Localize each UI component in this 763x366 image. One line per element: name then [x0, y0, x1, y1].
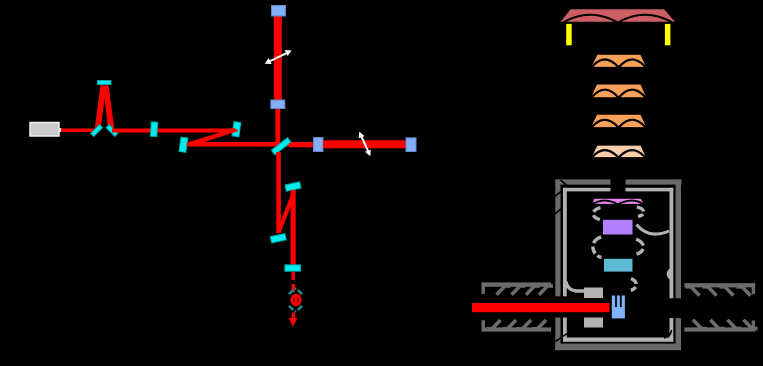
output arrowhead: [289, 318, 298, 327]
diagonal beam of Z-fold: [188, 128, 239, 147]
wire beam to waveplate: [112, 129, 237, 133]
white double arrow on vertical beam: [266, 51, 291, 64]
wire beam right of beamsplitter: [289, 143, 315, 148]
wire left wall to block: [566, 282, 585, 292]
blue element mid vertical arm: [271, 100, 285, 109]
blue detector right end: [406, 138, 416, 152]
oven plate 3: [590, 114, 648, 128]
yellow leg right: [664, 23, 671, 45]
red ring focus: [292, 295, 300, 304]
retro mirror above triangle: [98, 81, 112, 85]
beamsplitter at crossing: [271, 138, 291, 155]
thick vertical beam top: [274, 15, 282, 101]
blue detector top: [272, 6, 286, 17]
collimator block lower: [584, 318, 603, 328]
fold mirror upper right: [232, 122, 241, 137]
yellow leg left: [566, 23, 573, 45]
collimator block upper: [584, 288, 603, 299]
ion beam in chamber: [472, 303, 610, 312]
cyan electrode: [604, 259, 633, 272]
feedthrough bump right wall: [668, 270, 671, 279]
dashed coil arcs: [593, 207, 644, 290]
lower Z diagonal beam: [277, 193, 296, 233]
right flange tube: [684, 283, 755, 331]
mirror pair left (V): [91, 125, 118, 137]
oven plate 1: [590, 54, 647, 68]
chamber outer wall: [555, 179, 681, 350]
chamber inner wall: [563, 188, 673, 342]
roof table top: [559, 9, 676, 23]
oven plate 4: [590, 145, 647, 158]
left flange hatching: [487, 286, 554, 329]
wall seams: [555, 180, 672, 342]
laser source box: [30, 123, 62, 137]
dashed chevron bottom (lens): [289, 306, 302, 312]
dashed chevron top (lens): [289, 289, 302, 295]
fold mirror lower left: [179, 137, 188, 152]
filter bar: [285, 265, 301, 272]
wire from electrode to right wall: [637, 225, 670, 235]
left flange tube: [482, 282, 552, 331]
vertical beam down to filter: [291, 190, 296, 265]
wire beam from laser: [61, 129, 94, 133]
waveplate vertical element: [150, 122, 157, 137]
roof arcs: [563, 15, 618, 23]
detector comb: [612, 296, 625, 319]
oven plate 2: [590, 84, 648, 98]
right flange hatching: [686, 287, 758, 329]
thick beam right arm: [323, 140, 407, 148]
beam down-leg of triangle telescope: [103, 85, 115, 132]
wire beam to beamsplitter: [187, 142, 317, 147]
dashed beam below filter: [292, 272, 296, 280]
purple electrode: [603, 220, 633, 235]
dashed stem of output arrow: [292, 313, 295, 319]
beam up-leg of triangle telescope: [95, 85, 107, 132]
blue element right arm: [314, 138, 324, 152]
electron lens (magenta): [591, 198, 644, 204]
vertical beam below beamsplitter: [276, 152, 281, 233]
lower fold mirror left: [270, 234, 286, 243]
lower fold mirror right: [285, 182, 301, 191]
white double arrow on right beam: [359, 133, 370, 156]
vertical thin beam above beamsplitter: [275, 107, 280, 146]
